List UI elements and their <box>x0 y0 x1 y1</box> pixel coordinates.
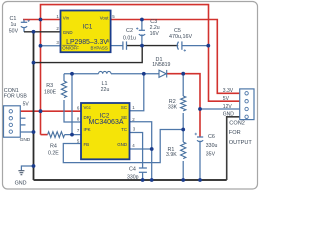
wire rail to IPK line <box>71 74 73 135</box>
wire ground bus to CON2 pin 4 <box>227 117 240 180</box>
connector CON1 <box>4 106 21 137</box>
wire IC2 TC pin 3 to C4 <box>130 133 143 169</box>
svg-text:33K: 33K <box>168 105 178 111</box>
svg-text:50V: 50V <box>9 29 19 35</box>
svg-text:Vin: Vin <box>63 15 70 20</box>
wire IC1 GND pin 2 to C1 <box>24 31 61 33</box>
inductor L1 <box>99 71 112 73</box>
wire C3 bottom lead <box>141 34 143 45</box>
svg-text:FOR USB: FOR USB <box>4 93 28 99</box>
wire IC1 ON/OFF pin 3 to 5V <box>41 45 61 47</box>
wire C1 top lead <box>23 20 25 23</box>
capacitor C3 <box>139 30 145 35</box>
wire IC1 BYPASS pin 4 to C2 <box>111 45 123 47</box>
svg-text:5V: 5V <box>223 96 230 102</box>
svg-text:MC34063A: MC34063A <box>88 119 123 126</box>
svg-text:C5: C5 <box>174 28 181 34</box>
capacitor C2 <box>123 41 127 49</box>
svg-text:0.01u: 0.01u <box>123 35 136 41</box>
resistor R1 <box>181 142 186 159</box>
svg-text:C4: C4 <box>129 167 136 173</box>
svg-text:C3: C3 <box>150 19 157 25</box>
wire R3 top lead <box>63 74 65 81</box>
svg-text:R4: R4 <box>50 144 57 150</box>
svg-text:IC1: IC1 <box>83 24 93 31</box>
svg-text:330p: 330p <box>127 174 139 180</box>
wire L1 rail right to D1 anode <box>111 73 159 75</box>
svg-text:Vcc: Vcc <box>84 105 92 110</box>
wire R2 bottom lead <box>182 113 184 130</box>
svg-text:1N5819: 1N5819 <box>152 62 170 68</box>
wire C6 bottom to ground bus <box>199 141 201 180</box>
svg-text:IPK: IPK <box>84 127 91 132</box>
svg-text:22u: 22u <box>101 87 110 93</box>
wire CON1 pin 3 stub <box>20 124 25 126</box>
resistor R2 <box>181 96 186 111</box>
svg-text:16V: 16V <box>150 31 160 37</box>
converter IC2 box <box>81 103 130 159</box>
svg-text:Vout: Vout <box>100 15 110 20</box>
svg-text:GND: GND <box>223 112 235 118</box>
wire C3 top lead <box>141 20 143 31</box>
svg-text:L1: L1 <box>102 81 108 87</box>
border frame <box>3 2 258 190</box>
svg-text:FOR: FOR <box>229 130 241 136</box>
plus mark C3 <box>136 27 138 29</box>
svg-text:OUTPUT: OUTPUT <box>229 140 253 146</box>
junction node dots <box>32 18 211 182</box>
wire ground C2 to C5 <box>127 45 179 47</box>
wire 5V to IC1 Vin pin 1 <box>23 19 61 21</box>
svg-text:330u: 330u <box>206 143 218 149</box>
wire IC2 SE pin 2 to ground bus <box>130 122 152 180</box>
wire C4 bottom to ground bus <box>142 172 144 180</box>
wire 5V corner to R4 <box>41 134 48 136</box>
capacitor C6 <box>197 137 203 142</box>
svg-text:C6: C6 <box>208 134 215 140</box>
svg-text:GND: GND <box>15 181 27 187</box>
svg-text:3.3V: 3.3V <box>223 88 234 94</box>
capacitor C1 <box>21 22 27 27</box>
wire R4 to IC2 IPK pin 7 <box>65 134 81 136</box>
svg-text:35V: 35V <box>206 151 216 157</box>
wire CON1 pin 2 stub <box>20 117 25 119</box>
wire L1 rail left <box>64 73 99 75</box>
svg-text:C1: C1 <box>10 16 17 22</box>
svg-text:DRI: DRI <box>84 115 92 120</box>
svg-text:0.2E: 0.2E <box>48 151 59 157</box>
svg-text:5V: 5V <box>23 101 30 107</box>
svg-text:CON2: CON2 <box>229 121 245 127</box>
wire ground symbol tap <box>21 166 33 170</box>
plus mark C5 <box>184 49 186 51</box>
wire C5 to 5V line <box>182 45 208 47</box>
plus mark C6 <box>195 133 197 135</box>
wire CON1 pin 4 to ground <box>20 131 33 133</box>
wire R2 top lead <box>182 74 184 96</box>
wire R1 bottom to ground bus <box>182 161 184 180</box>
capacitor C5 <box>177 41 182 49</box>
svg-text:TC: TC <box>121 127 127 132</box>
svg-text:3.9K: 3.9K <box>166 152 177 158</box>
diode D1 <box>159 70 167 78</box>
svg-text:SE: SE <box>121 115 127 120</box>
svg-text:R3: R3 <box>46 83 53 89</box>
wire IC2 SC pin 1 to rail <box>130 74 144 111</box>
wire IC2 GND pin 4 <box>130 148 152 150</box>
wire ground mid horizontal <box>34 46 143 63</box>
wire R1 top lead <box>182 130 184 143</box>
wire C1 bottom lead <box>23 28 25 32</box>
svg-text:FB: FB <box>84 142 90 147</box>
IC1 ON/OFF overline <box>62 44 76 46</box>
svg-text:180E: 180E <box>44 90 57 96</box>
wire R3 bottom to IC2 DRI pin 8 <box>64 100 81 122</box>
wire D1 cathode 12V to C6 <box>167 74 200 137</box>
svg-text:GND: GND <box>63 30 73 35</box>
wire 5V net top rail <box>41 5 240 135</box>
capacitor C4 <box>139 168 147 172</box>
wire ground vertical <box>33 32 35 180</box>
ground symbol <box>18 171 24 175</box>
svg-text:SC: SC <box>121 105 127 110</box>
resistor R4 <box>48 132 65 138</box>
connector CON2 <box>240 89 254 120</box>
svg-text:ON/OFF: ON/OFF <box>62 46 79 51</box>
wire ground bus <box>34 179 227 181</box>
wire 12V to CON2 pin 3 <box>200 108 240 110</box>
svg-text:1u: 1u <box>11 22 17 28</box>
wire IC1 Vout 3.3V to CON2 pin 1 <box>111 20 240 94</box>
svg-text:GND: GND <box>117 142 127 147</box>
svg-text:GND: GND <box>20 137 31 143</box>
svg-text:BYPASS: BYPASS <box>91 46 108 51</box>
resistor R3 <box>61 81 66 98</box>
wire IC2 FB pin 5 to R1 R2 junction <box>63 130 183 163</box>
regulator IC1 box <box>61 11 111 53</box>
svg-text:470u,16V: 470u,16V <box>169 34 192 40</box>
plus mark C1 <box>28 20 30 22</box>
wire CON1 5V to IC2 Vcc pin 6 <box>20 110 81 112</box>
svg-text:C2: C2 <box>126 28 133 34</box>
svg-text:12V: 12V <box>223 104 233 110</box>
